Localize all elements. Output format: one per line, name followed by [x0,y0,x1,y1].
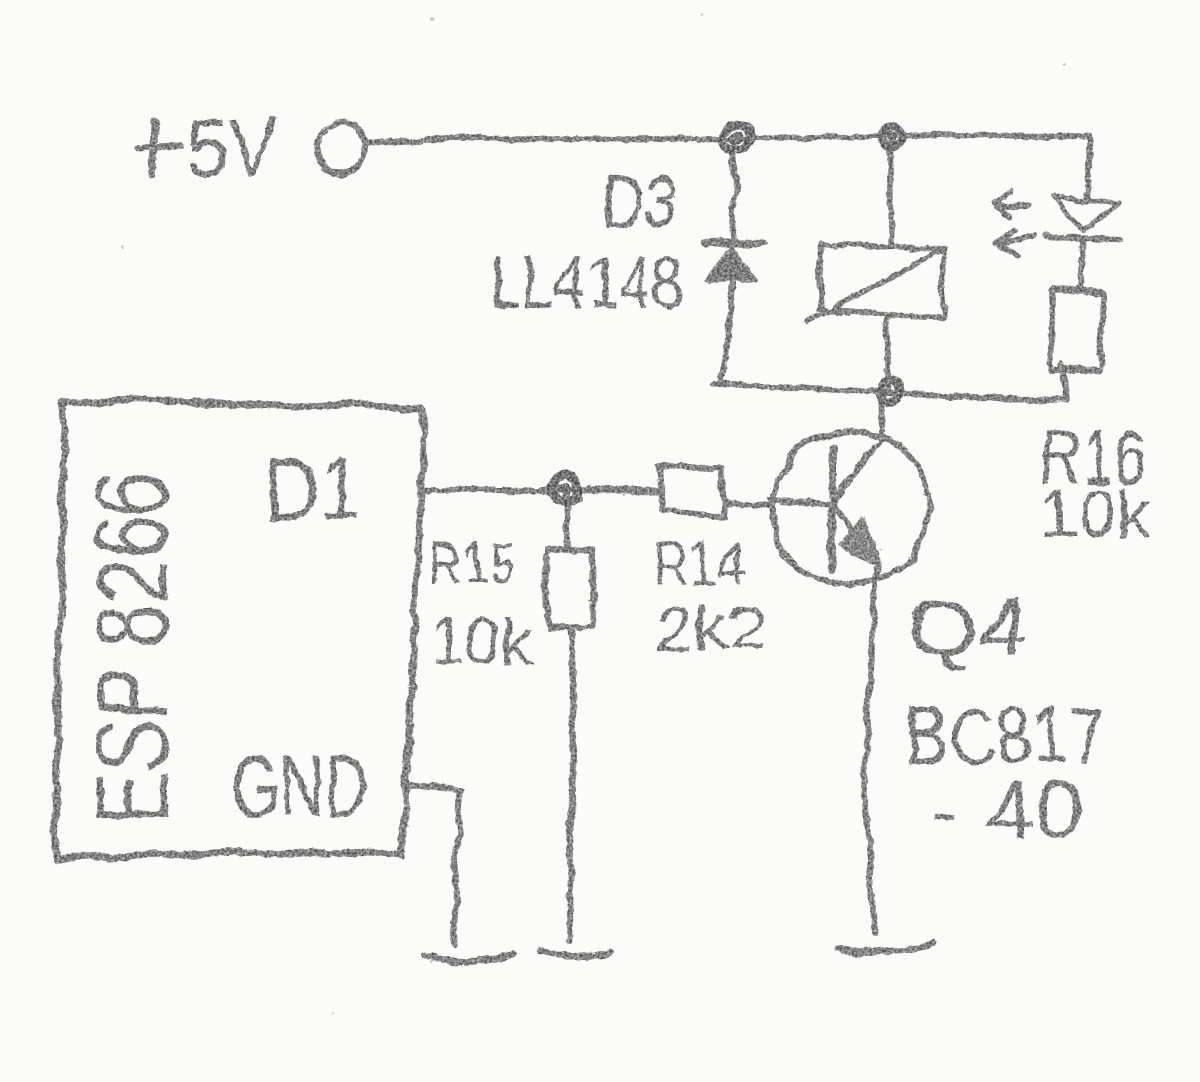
svg-text:R15: R15 [427,528,514,597]
svg-text:GND: GND [228,734,366,834]
svg-text:D1: D1 [262,437,358,538]
svg-text:Q4: Q4 [904,581,1027,669]
svg-text:2k2: 2k2 [652,595,765,660]
svg-text:D3: D3 [599,157,675,243]
svg-text:ESP 8266: ESP 8266 [74,470,186,821]
svg-text:5V: 5V [183,100,276,189]
svg-text:LL4148: LL4148 [487,239,683,320]
svg-text:10k: 10k [428,602,531,676]
svg-text:10k: 10k [1038,473,1148,549]
svg-text:- 40: - 40 [930,764,1080,852]
svg-text:R14: R14 [650,528,743,597]
